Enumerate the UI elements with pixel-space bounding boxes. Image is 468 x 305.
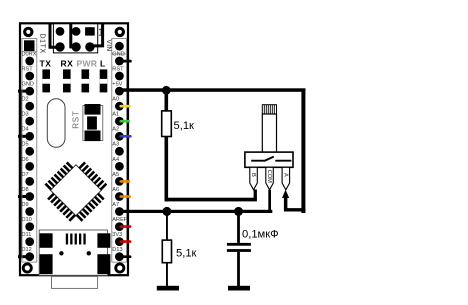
wire COM to bottom net: [268, 190, 271, 213]
svg-text:0,1мкФ: 0,1мкФ: [242, 229, 279, 241]
svg-text:1: 1: [98, 26, 104, 38]
USB contact bars: [66, 234, 86, 245]
wire stub A1 green: [119, 120, 130, 123]
svg-text:A4: A4: [112, 157, 119, 163]
ICSP pin top row 2: [72, 27, 81, 36]
svg-text:3V3: 3V3: [112, 232, 122, 238]
encoder terminal A: [282, 167, 290, 190]
wire R1 to encoder B horizontal: [165, 198, 257, 202]
svg-text:A: A: [282, 173, 288, 177]
USB pad bottom-right: [97, 254, 110, 274]
ground symbol C1: [228, 286, 250, 291]
LED RX: [63, 69, 71, 92]
svg-text:5,1к: 5,1к: [174, 120, 195, 132]
svg-text:D11: D11: [22, 232, 32, 238]
wire stub D8 pin: [18, 195, 30, 198]
wire GND net left: vertical along board edge: [19, 90, 22, 259]
resistor R2 bottom lead: [166, 263, 168, 287]
wire +5V horizontal top: [119, 88, 305, 92]
left pin labels: [22, 51, 37, 253]
svg-text:A5: A5: [112, 172, 119, 178]
svg-text:D7: D7: [22, 172, 29, 178]
ICSP pin bottom row 2: [71, 42, 80, 51]
USB locator dot left: [59, 251, 63, 255]
wire stub D13 black: [119, 255, 131, 258]
encoder terminal B: [250, 167, 257, 190]
left pin D1/TX square pad: [24, 40, 35, 51]
ground symbol R2: [157, 286, 179, 291]
LED TX: [42, 69, 50, 92]
junction +5V / R1: [162, 86, 171, 95]
wire stub A2 blue: [119, 135, 131, 138]
label line under TX pad: [22, 51, 37, 53]
arrow into terminal A: [282, 190, 289, 198]
wire stub GND left pin: [18, 90, 30, 93]
svg-text:D13: D13: [112, 247, 122, 253]
svg-text:D0RX: D0RX: [22, 51, 37, 57]
svg-text:5,1к: 5,1к: [176, 248, 197, 260]
right pins VIN..D13: [115, 42, 124, 261]
resistor R1 top lead: [165, 90, 169, 111]
svg-text:GND: GND: [112, 51, 124, 57]
ICSP header J1 outline: [53, 24, 97, 53]
mounting hole bottom-right: [114, 263, 125, 274]
label line under VIN pin: [112, 53, 127, 55]
USB pad top-left: [40, 233, 53, 248]
wire encoder B vertical: [254, 190, 257, 200]
reset silk capsule: [47, 99, 65, 148]
svg-text:GND: GND: [22, 82, 34, 88]
junction bottom / R2: [162, 207, 171, 216]
svg-text:D8: D8: [22, 187, 29, 193]
USB connector J2 body: [39, 230, 107, 275]
resistor R2 body 5,1k: [162, 240, 171, 263]
arrow stem: [284, 196, 287, 212]
right pin column silk box: [112, 39, 127, 263]
svg-text:D5: D5: [22, 142, 29, 148]
wire stub A6 orange: [119, 195, 131, 198]
svg-text:D2: D2: [22, 97, 29, 103]
svg-text:RST: RST: [112, 66, 124, 72]
capacitor C1 top lead: [237, 211, 240, 243]
wire A7 to COM bottom horizontal: [119, 210, 272, 213]
mounting hole top-right: [115, 27, 125, 37]
left pins D0RX..D12: [25, 57, 34, 262]
svg-text:RST: RST: [72, 110, 81, 128]
ICSP pin 1 square pad: [85, 27, 95, 35]
wire ICSP right pin from top edge: [90, 23, 103, 46]
resistor R1 body 5,1k: [162, 111, 172, 137]
svg-text:D9: D9: [22, 202, 29, 208]
wire stub GND right thin: [119, 60, 131, 63]
wire stub 3V3 red: [119, 240, 131, 243]
MCU chip QFP32 rotated 45deg: [39, 153, 113, 227]
wire stub A0 yellow: [119, 105, 130, 108]
svg-text:A7: A7: [112, 202, 119, 208]
ICSP pin bottom row 3: [85, 42, 94, 51]
wire stub D4 pin: [18, 135, 30, 138]
right pin labels: [112, 51, 128, 253]
svg-text:A3: A3: [112, 142, 119, 148]
left pin column silk box: [22, 39, 37, 263]
svg-text:RX: RX: [61, 59, 74, 69]
encoder EN1 shaft knurl: [262, 105, 276, 114]
wire stub AREF red: [119, 225, 131, 228]
svg-text:D12: D12: [22, 247, 32, 253]
reset button S1: [83, 104, 103, 141]
capacitor C1 bottom lead: [237, 252, 240, 286]
mounting hole bottom-left: [22, 263, 33, 274]
wire stub A5 orange: [119, 180, 130, 183]
svg-text:B: B: [250, 173, 256, 177]
resistor R1 bottom lead: [165, 137, 169, 202]
svg-text:PWR: PWR: [77, 59, 98, 69]
Arduino Nano board U1 outline: [20, 23, 128, 275]
LED PWR: [82, 69, 90, 92]
svg-text:A1: A1: [112, 112, 119, 118]
encoder switch symbol: [251, 157, 291, 161]
svg-text:VIN: VIN: [105, 40, 112, 52]
ICSP pin top row 1: [56, 27, 65, 36]
svg-text:A6: A6: [112, 187, 119, 193]
wire +5V right vertical: [301, 89, 305, 213]
capacitor C1 plates: [227, 243, 251, 252]
svg-text:D3: D3: [22, 112, 29, 118]
encoder EN1 body: [245, 152, 293, 167]
wire A terminal segment: [286, 197, 306, 210]
wire stub D12 pin: [18, 255, 30, 258]
encoder terminal COM: [266, 167, 274, 190]
svg-text:A0: A0: [112, 97, 119, 103]
wire ICSP middle pin from top edge: [71, 23, 76, 47]
junction bottom / C1: [234, 207, 243, 216]
svg-text:D1TX: D1TX: [38, 34, 45, 54]
USB pad bottom-left: [40, 254, 53, 274]
svg-text:D6: D6: [22, 157, 29, 163]
svg-text:+5V: +5V: [112, 82, 122, 88]
wire ICSP pin MOSI from top edge: [50, 23, 60, 47]
resistor R2 top lead: [166, 211, 168, 240]
LED L: [100, 69, 108, 92]
USB tongue below board: [52, 276, 98, 288]
ICSP pin bottom row 1: [55, 42, 64, 51]
encoder EN1 shaft: [262, 114, 276, 152]
USB pad top-right: [97, 233, 110, 248]
svg-text:TX: TX: [40, 59, 52, 69]
svg-text:AREF: AREF: [112, 217, 128, 223]
svg-text:COM: COM: [266, 170, 272, 183]
svg-text:D10: D10: [22, 217, 32, 223]
svg-text:D4: D4: [22, 127, 29, 133]
mounting hole top-left: [23, 27, 33, 37]
svg-text:A2: A2: [112, 127, 119, 133]
svg-text:L: L: [100, 59, 105, 69]
USB locator dot right: [87, 251, 91, 255]
svg-text:RST: RST: [22, 66, 34, 72]
